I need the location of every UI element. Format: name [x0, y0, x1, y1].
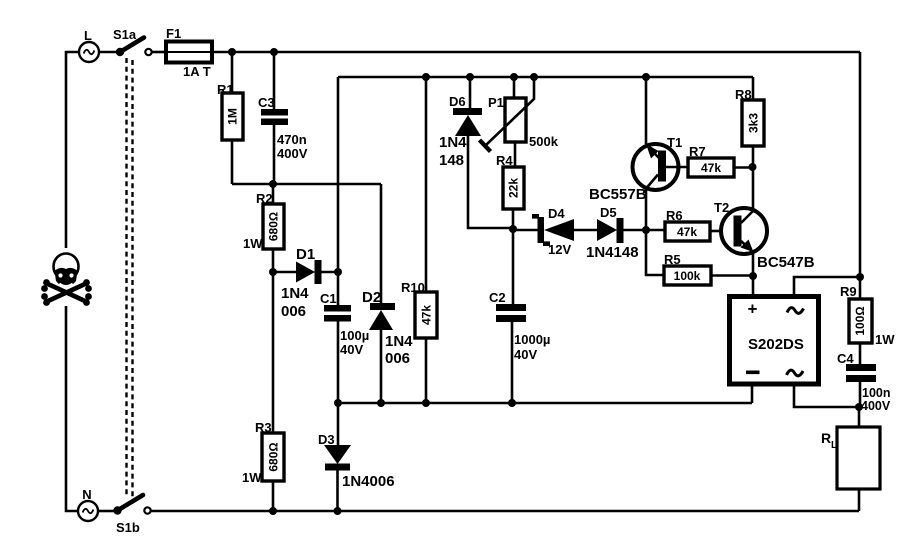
node R7/R8/T2 — [749, 163, 757, 171]
node bus P1 wiper — [530, 73, 538, 81]
svg-text:680Ω: 680Ω — [267, 442, 281, 471]
diode D6 — [439, 77, 513, 228]
diode D5 — [586, 205, 665, 261]
wire C2 column — [512, 229, 515, 304]
svg-text:500k: 500k — [529, 134, 559, 149]
node top bus C3 — [270, 48, 278, 56]
svg-text:BC547B: BC547B — [757, 254, 815, 271]
svg-text:S202DS: S202DS — [748, 336, 804, 353]
resistor R9 — [840, 277, 895, 364]
svg-text:1N4: 1N4 — [281, 285, 309, 302]
fuse F1 — [166, 26, 212, 79]
resistor R7 — [688, 144, 753, 177]
svg-text:1W: 1W — [243, 236, 263, 251]
svg-text:680Ω: 680Ω — [267, 212, 281, 241]
node C3/R2 — [269, 180, 277, 188]
node T2 emitter / R5 / SSR+ — [749, 272, 757, 280]
switch S1b — [113, 495, 150, 535]
svg-text:R7: R7 — [689, 144, 706, 159]
diode D1 — [273, 246, 338, 320]
node bus D6 — [466, 73, 474, 81]
svg-text:D2: D2 — [362, 289, 381, 306]
capacitor C1 — [320, 291, 369, 403]
svg-text:D3: D3 — [318, 432, 335, 447]
wire right rail down — [859, 52, 862, 277]
node D5/R6/T1 — [642, 226, 650, 234]
svg-text:R5: R5 — [664, 252, 681, 267]
wire T1 base to R7 — [666, 166, 688, 169]
terminal N — [78, 487, 98, 521]
svg-text:R6: R6 — [666, 208, 683, 223]
transistor T2 — [714, 200, 815, 276]
resistor R5 — [664, 252, 753, 285]
svg-text:47k: 47k — [701, 161, 721, 175]
resistor R3 — [242, 420, 284, 511]
load RL — [821, 407, 880, 511]
svg-text:1W: 1W — [242, 470, 262, 485]
wire left rail L down to N — [66, 52, 79, 511]
wire bottom bus — [151, 510, 859, 513]
svg-text:40V: 40V — [514, 347, 537, 362]
svg-text:D1: D1 — [296, 246, 315, 263]
svg-text:47k: 47k — [420, 305, 434, 325]
svg-text:400V: 400V — [861, 399, 891, 413]
svg-text:R4: R4 — [496, 153, 513, 168]
wire supply column x338 — [337, 77, 340, 305]
wire S1a to F1 — [152, 51, 167, 54]
svg-text:T2: T2 — [714, 200, 729, 215]
wire T2 emitter to SSR + — [752, 276, 755, 297]
svg-text:P1: P1 — [488, 95, 504, 110]
transistor T1 — [589, 77, 682, 230]
zener diode D4 — [513, 206, 597, 257]
svg-text:100k: 100k — [674, 269, 701, 283]
capacitor C2 — [489, 290, 550, 403]
svg-text:N: N — [82, 487, 91, 502]
capacitor C3 — [258, 52, 308, 184]
svg-text:R8: R8 — [735, 87, 752, 102]
svg-text:100n: 100n — [862, 386, 891, 400]
resistor R2 — [243, 184, 284, 272]
wire T1 collector down to R5 — [646, 230, 664, 275]
wire left column R2 to R3 — [272, 272, 275, 433]
switch S1a — [113, 27, 152, 56]
svg-text:1M: 1M — [226, 108, 240, 125]
svg-text:148: 148 — [439, 152, 464, 169]
svg-text:22k: 22k — [507, 178, 521, 198]
node bottom bus R3 — [269, 507, 277, 515]
node D6/R4/C2 — [509, 225, 517, 233]
svg-text:R: R — [821, 430, 831, 446]
node bus T1 — [642, 73, 650, 81]
svg-text:R2: R2 — [256, 191, 273, 206]
wire SSR minus to mid bus — [751, 384, 754, 403]
wire N to S1b — [98, 510, 114, 513]
node mid bus D2 — [377, 399, 385, 407]
svg-text:100µ: 100µ — [340, 328, 369, 343]
svg-text:470n: 470n — [277, 132, 307, 147]
svg-text:400V: 400V — [277, 146, 308, 161]
svg-text:D6: D6 — [449, 94, 466, 109]
svg-text:1W: 1W — [875, 332, 895, 347]
svg-text:1N4006: 1N4006 — [342, 473, 395, 490]
node bus R10 — [422, 73, 430, 81]
skull danger symbol — [41, 248, 92, 306]
svg-text:F1: F1 — [166, 26, 181, 41]
svg-text:1A T: 1A T — [183, 64, 211, 79]
svg-text:C1: C1 — [320, 291, 337, 306]
node D1/C1 — [334, 268, 342, 276]
svg-text:L: L — [84, 28, 92, 43]
svg-text:1000µ: 1000µ — [514, 332, 550, 347]
node right rail / R9 — [856, 273, 864, 281]
resistor R4 — [496, 153, 524, 229]
wire R8 node to T2 collector — [752, 167, 755, 209]
wire mid-left bus — [232, 183, 381, 186]
resistor R8 — [735, 77, 764, 167]
diode D3 — [318, 403, 395, 511]
solid state relay S202DS — [730, 297, 819, 385]
svg-text:S1a: S1a — [113, 27, 137, 42]
node top bus R1 — [228, 48, 236, 56]
svg-text:C3: C3 — [258, 95, 275, 110]
wire second bus — [338, 76, 753, 79]
svg-text:T1: T1 — [667, 135, 682, 150]
svg-text:006: 006 — [385, 350, 410, 367]
node bottom bus D3 — [334, 507, 342, 515]
svg-text:47k: 47k — [677, 225, 697, 239]
wire SSR ~ top to right rail — [794, 277, 860, 297]
wire SSR ~ bottom to C4 node — [794, 384, 859, 407]
svg-text:40V: 40V — [340, 342, 363, 357]
wire L to S1a — [99, 51, 116, 54]
diode D2 — [362, 184, 413, 403]
svg-text:L: L — [831, 440, 837, 451]
mechanical link dashed — [127, 58, 133, 497]
svg-text:1N4: 1N4 — [439, 134, 467, 151]
wire top bus — [212, 51, 860, 54]
svg-text:+: + — [748, 300, 758, 319]
wire mid bus — [338, 402, 752, 405]
node R2/D1 — [269, 268, 277, 276]
capacitor C4 — [837, 351, 891, 413]
svg-text:S1b: S1b — [116, 520, 140, 535]
node mid bus C2 — [508, 399, 516, 407]
svg-text:3k3: 3k3 — [747, 113, 761, 133]
resistor R6 — [665, 208, 721, 241]
svg-text:R1: R1 — [217, 82, 234, 97]
node mid bus C1/D3 — [334, 399, 342, 407]
svg-text:R9: R9 — [840, 284, 857, 299]
svg-text:1N4148: 1N4148 — [586, 244, 639, 261]
svg-text:R3: R3 — [255, 420, 272, 435]
resistor R1 — [217, 52, 243, 184]
potentiometer P1 — [480, 77, 559, 167]
node mid bus R10 — [422, 399, 430, 407]
svg-text:C4: C4 — [837, 351, 854, 366]
svg-text:BC557B: BC557B — [589, 186, 647, 203]
svg-text:100Ω: 100Ω — [853, 306, 867, 335]
resistor R10 — [401, 77, 437, 403]
node C4 / SSR~ / RL — [855, 403, 863, 411]
node bus P1 — [510, 73, 518, 81]
svg-text:C2: C2 — [489, 290, 506, 305]
svg-text:D4: D4 — [548, 206, 565, 221]
svg-text:12V: 12V — [548, 242, 571, 257]
terminal L — [79, 28, 99, 62]
svg-text:D5: D5 — [600, 205, 617, 220]
svg-text:1N4: 1N4 — [385, 333, 413, 350]
svg-text:006: 006 — [281, 303, 306, 320]
svg-text:R10: R10 — [401, 280, 425, 295]
